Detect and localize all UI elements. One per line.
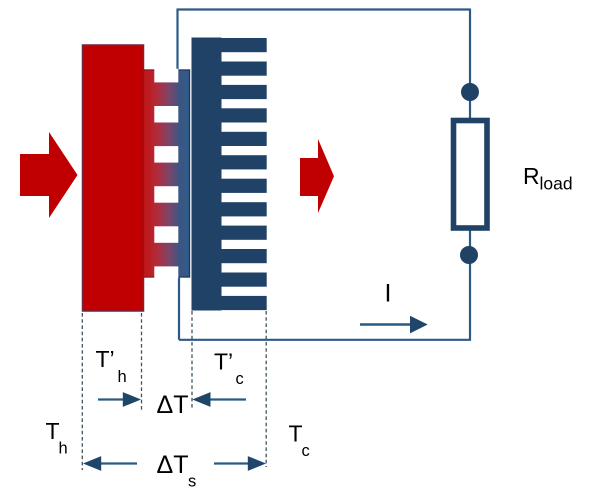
label dTs [157, 451, 197, 488]
heat sink fin 6 [222, 155, 267, 169]
module leg gap 4 [154, 226, 178, 243]
heat input arrow (left red arrow) [20, 132, 78, 218]
module leg gap 1 [154, 106, 178, 123]
hot reservoir block (red rectangle) [83, 45, 144, 311]
wire right vertical [469, 9, 471, 341]
svg-text:I: I [385, 280, 392, 308]
heat sink fin 9 [222, 226, 267, 240]
dimension arrow T'h (points right to x=141) [98, 392, 141, 407]
module leg gap 2 [154, 146, 178, 163]
heat output arrow (middle red arrow) [300, 139, 334, 213]
current direction arrow [360, 316, 428, 334]
heat sink fin 12 [222, 296, 267, 310]
heat sink fin 5 [222, 132, 267, 146]
extension line x=82 (hot outer face) [81, 313, 83, 470]
extension line x=141 (hot plate face) [141, 313, 143, 410]
svg-text:T: T [289, 421, 303, 447]
svg-text:c: c [236, 370, 244, 388]
node bottom (connection dot) [460, 246, 478, 264]
heat sink fin 7 [222, 179, 267, 193]
svg-text:h: h [118, 368, 127, 386]
thermoelectric module (hot plate, legs, cold plate gradient) [144, 70, 190, 277]
module leg gap 3 [154, 186, 178, 203]
svg-text:T’: T’ [214, 349, 233, 375]
dimension arrow dTs left (points left to x=82) [83, 456, 137, 471]
current label I [385, 280, 392, 308]
dimension arrow dTs right (points right to x=266) [214, 456, 266, 471]
label T'h [96, 346, 127, 386]
heat sink spine [192, 38, 222, 311]
svg-text:R: R [523, 163, 540, 189]
heat sink fin 2 [222, 62, 267, 76]
extension line x=192 (cold plate face) [191, 311, 193, 410]
wire left top vertical [176, 9, 178, 76]
module leg gap (top) [154, 69, 178, 83]
dimension arrow dT (points left to x=192) [192, 392, 246, 407]
heat sink fin 11 [222, 273, 267, 287]
label Tc [289, 421, 310, 461]
svg-text:s: s [188, 473, 196, 488]
node top (connection dot) [461, 83, 479, 101]
heat sink fin 10 [222, 249, 267, 263]
svg-text:c: c [302, 442, 310, 460]
svg-text:ΔT: ΔT [157, 391, 189, 419]
extension line x=266 (cold outer face) [265, 311, 267, 467]
heat sink fin 4 [222, 108, 267, 122]
heat sink fin 8 [222, 202, 267, 216]
label R_load [523, 163, 573, 194]
svg-text:T’: T’ [96, 346, 115, 372]
heat sink fin 1 [222, 38, 267, 52]
wire top horizontal [178, 8, 471, 10]
svg-text:load: load [540, 174, 573, 194]
module leg gap (bottom) [154, 266, 178, 278]
label dT [157, 391, 189, 419]
label Th [46, 418, 68, 458]
wire bottom horizontal [179, 339, 471, 341]
svg-text:T: T [46, 418, 60, 444]
svg-text:ΔT: ΔT [157, 451, 189, 479]
svg-text:h: h [59, 440, 68, 458]
wire left bottom vertical [178, 276, 180, 340]
label T'c [214, 349, 244, 389]
resistor R_load [454, 121, 488, 229]
heat sink fin 3 [222, 85, 267, 99]
